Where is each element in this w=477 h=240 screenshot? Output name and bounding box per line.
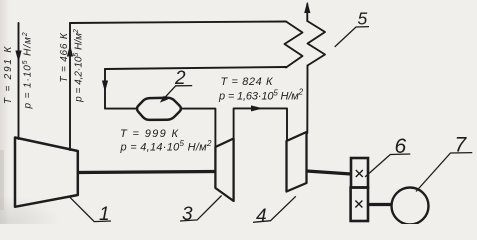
wire: turbine 4 exhaust riser — [306, 66, 308, 134]
svg-text:p = 1,63·105 Н/м2: p = 1,63·105 Н/м2 — [218, 88, 304, 103]
arrow: compressor outlet (up) — [67, 45, 73, 57]
compressor 1 — [15, 138, 78, 207]
combustion chamber 2 — [137, 98, 181, 120]
svg-text:4: 4 — [256, 206, 267, 224]
turbine 3 — [215, 139, 233, 202]
wire: air inlet line into compressor 1 — [18, 23, 20, 139]
regenerator 5 cold-side zigzag — [285, 22, 303, 68]
x mark lower — [355, 201, 362, 208]
label 1 leader — [70, 197, 111, 221]
svg-text:Т = 824 К: Т = 824 К — [221, 76, 274, 88]
wire: top pipe to regenerator — [70, 22, 286, 24]
svg-text:2: 2 — [174, 68, 186, 89]
turbine 4 — [287, 132, 307, 192]
arrow: air intake (down) — [15, 51, 21, 63]
svg-text:Т = 999 К: Т = 999 К — [120, 128, 179, 140]
svg-text:Т = 466 К: Т = 466 К — [59, 32, 70, 82]
svg-text:p = 4,14·105 Н/м2: p = 4,14·105 Н/м2 — [120, 139, 213, 154]
generator 7 — [392, 188, 429, 225]
gearbox 6 lower box — [351, 188, 368, 222]
label 3 leader — [180, 196, 222, 222]
svg-text:5: 5 — [358, 9, 368, 29]
label 7 leader — [416, 153, 472, 192]
paper edge shading — [0, 0, 9, 224]
label 5 leader — [335, 27, 369, 47]
svg-text:p = 4,2·105 Н/м2: p = 4,2·105 Н/м2 — [73, 29, 85, 103]
wire: exhaust stack to atmosphere — [306, 4, 308, 21]
label 2 leader with arrow — [162, 86, 192, 101]
shaft: turbine 4 to gearbox — [307, 171, 352, 174]
wire: turbine 3 exhaust to turbine 4 — [234, 108, 287, 141]
regenerator 5 hot-side zigzag — [307, 21, 325, 66]
wire: combustion chamber outlet to turbine 3 — [183, 109, 216, 147]
shaft: gearbox to generator — [368, 203, 392, 206]
label 6 leader — [365, 154, 410, 177]
wire: regenerator return pipe — [105, 67, 286, 69]
arrow: turbine3 to turbine4 flow (right) — [251, 105, 264, 111]
wire: drop to combustion chamber line — [105, 69, 136, 109]
arrow: into combustion chamber feed (down) — [102, 81, 108, 93]
shaft: compressor to turbine 3 — [78, 172, 216, 173]
svg-text:7: 7 — [455, 134, 468, 157]
svg-text:Т = 291 К: Т = 291 К — [3, 45, 14, 104]
svg-text:6: 6 — [395, 135, 407, 158]
svg-text:p = 1·105 Н/м2: p = 1·105 Н/м2 — [22, 31, 34, 109]
arrow: exhaust to atmosphere (up) — [304, 2, 310, 14]
svg-text:1: 1 — [99, 204, 110, 224]
gearbox 6 upper box — [351, 158, 368, 188]
svg-text:3: 3 — [182, 204, 193, 224]
label 4 leader — [253, 196, 296, 222]
x mark upper — [356, 170, 363, 177]
wire: compressor outlet riser — [69, 23, 71, 150]
